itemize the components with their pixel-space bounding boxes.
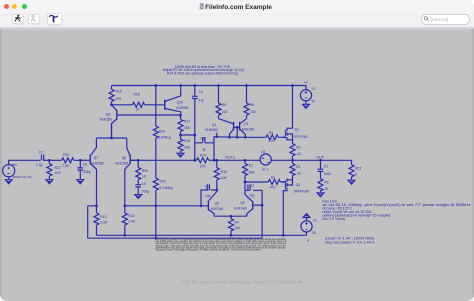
wire +V top bus <box>112 85 307 87</box>
svg-text:Q4: Q4 <box>212 123 217 127</box>
svg-text:-V: -V <box>306 239 310 243</box>
node Q8 collector / R14 <box>123 204 126 207</box>
svg-text:3.9K: 3.9K <box>100 221 108 225</box>
svg-text:18p: 18p <box>205 194 211 198</box>
node C1 tap <box>319 159 322 162</box>
svg-text:100: 100 <box>234 226 240 230</box>
ground below R22 <box>46 180 53 184</box>
svg-text:FileInfo.com Example: FileInfo.com Example <box>205 4 272 11</box>
svg-text:100: 100 <box>222 110 228 114</box>
node Q7 collector / R13 <box>95 204 98 207</box>
svg-text:V1: V1 <box>312 87 316 91</box>
svg-text:3p: 3p <box>202 148 206 152</box>
node R10 tap <box>215 159 218 162</box>
svg-text:100µ: 100µ <box>142 190 150 194</box>
resistor R13 <box>94 206 108 236</box>
svg-text:1K: 1K <box>142 174 147 178</box>
resistor R18 <box>178 135 191 153</box>
capacitor C7 <box>36 151 49 167</box>
wire comp stub <box>214 133 217 143</box>
svg-text:3.67Meg: 3.67Meg <box>158 135 171 139</box>
node tail junction <box>110 137 113 140</box>
node R6 bus tap <box>245 84 248 87</box>
svg-text:R21: R21 <box>63 153 69 157</box>
svg-text:R6: R6 <box>250 103 254 107</box>
transistor Q9 <box>100 105 181 138</box>
svg-text:R18: R18 <box>184 139 190 143</box>
node junction R15/Q9/R16 <box>110 103 113 106</box>
svg-text:.33: .33 <box>296 152 301 156</box>
wire OUT line <box>271 159 351 161</box>
svg-text:C1: C1 <box>324 164 328 168</box>
svg-text:.four 1K V(out): .four 1K V(out) <box>322 217 346 221</box>
svg-text:R8: R8 <box>222 103 226 107</box>
ground below C6 <box>77 180 84 184</box>
node R7/R5/C2 junction <box>244 181 247 184</box>
svg-text:890: 890 <box>249 171 255 175</box>
svg-text:MJE350: MJE350 <box>100 117 112 121</box>
resistor R6 <box>244 86 256 119</box>
node R7 tap <box>244 159 247 162</box>
svg-text:Q8: Q8 <box>122 156 127 160</box>
svg-text:Vin: Vin <box>12 163 17 167</box>
svg-text:C7: C7 <box>39 151 43 155</box>
ground below C5 <box>135 195 142 199</box>
transistor Q4 <box>205 119 237 138</box>
svg-text:100: 100 <box>250 110 256 114</box>
voltage source V2 <box>301 218 317 243</box>
ground above V2 <box>303 214 310 218</box>
node R10/C3/Q6 junction <box>215 189 218 192</box>
resistor R8 <box>216 86 228 119</box>
svg-text:Copyright Linear Technology Co: Copyright Linear Technology Corporation.… <box>156 248 262 251</box>
node emitter tie / R9 <box>230 215 233 218</box>
svg-text:V3: V3 <box>261 150 265 154</box>
node Q9 base / Q10 collector / R17 <box>179 114 182 117</box>
svg-text:47p: 47p <box>199 98 205 102</box>
svg-text:Q3: Q3 <box>244 122 249 126</box>
svg-text:C2: C2 <box>250 183 254 187</box>
run icon (running man) <box>15 15 20 22</box>
svg-text:R15: R15 <box>116 89 122 93</box>
svg-text:C5: C5 <box>142 182 146 186</box>
svg-text:C8: C8 <box>200 136 204 140</box>
node base drop <box>236 136 239 139</box>
svg-text:100n: 100n <box>324 172 332 176</box>
svg-text:R22: R22 <box>55 166 61 170</box>
node Q5 base junction <box>261 204 264 207</box>
node R24 bus tap <box>154 84 157 87</box>
svg-text:R13: R13 <box>100 215 106 219</box>
wire Q5/Q6 emitter tie <box>214 215 247 217</box>
transistor Q5 <box>234 195 262 217</box>
svg-text:ac 1: ac 1 <box>262 168 268 172</box>
node R19 right <box>213 159 216 162</box>
node Q3 collector / R4 <box>244 136 247 139</box>
capacitor C4 <box>192 86 204 136</box>
resistor R9 <box>229 216 240 235</box>
svg-text:R4: R4 <box>269 131 273 135</box>
resistor R3 <box>318 179 329 193</box>
ground below V1 <box>303 104 310 108</box>
capacitor C1 <box>318 160 332 178</box>
disclaimer fine print <box>156 238 287 251</box>
svg-text:V2: V2 <box>313 218 317 222</box>
svg-text:470: 470 <box>270 186 276 190</box>
search magnifier <box>424 17 428 21</box>
svg-text:3.9K: 3.9K <box>128 220 136 224</box>
svg-text:SINE(0 {V} 1K): SINE(0 {V} 1K) <box>13 175 32 179</box>
resistor R24 <box>153 86 171 179</box>
svg-text:R16: R16 <box>134 93 140 97</box>
node R20 tap <box>137 159 140 162</box>
node R14 on -V rail <box>123 234 126 237</box>
transistor Q6 <box>208 190 223 216</box>
traffic light close <box>4 4 9 9</box>
wire mirror collector rail <box>217 136 246 139</box>
resistor R20 <box>136 160 148 184</box>
node output device junction <box>291 159 294 162</box>
node Q2 drain on -V rail <box>282 234 285 237</box>
node R19 left <box>193 159 196 162</box>
wire OUT1 line <box>131 159 260 161</box>
toolbar button component <box>47 13 62 24</box>
wire VAS node to C4 column <box>181 134 195 136</box>
svg-text:R9: R9 <box>234 220 238 224</box>
node C4 bus tap <box>193 84 196 87</box>
svg-text:10K: 10K <box>221 176 228 180</box>
svg-text:50: 50 <box>312 231 316 235</box>
svg-text:18p: 18p <box>249 194 255 198</box>
title bar app icon <box>200 3 204 9</box>
svg-text:IRFP240: IRFP240 <box>294 135 307 139</box>
toolbar button run <box>12 14 24 25</box>
svg-text:10: 10 <box>324 187 328 191</box>
svg-text:IRFP9240: IRFP9240 <box>294 189 309 193</box>
svg-text:R1: R1 <box>296 165 300 169</box>
resistor R14 <box>122 206 136 236</box>
svg-text:C4: C4 <box>199 90 203 94</box>
svg-text:R17: R17 <box>184 120 190 124</box>
svg-text:(normal): (normal) <box>431 17 449 23</box>
svg-text:50: 50 <box>312 100 316 104</box>
svg-text:6.14Meg: 6.14Meg <box>160 186 173 190</box>
svg-text:C3: C3 <box>205 184 209 188</box>
transistor Q7 <box>80 138 103 206</box>
transistor Q3 <box>237 119 254 138</box>
svg-text:R25: R25 <box>160 180 166 184</box>
node R21/C6/Q7 base <box>79 159 82 162</box>
toolbar button halt (disabled) <box>28 14 40 25</box>
node R25 on feedback line <box>154 237 157 240</box>
svg-text:470: 470 <box>269 139 275 143</box>
svg-text:Q2: Q2 <box>296 183 301 187</box>
resistor R4 <box>245 131 284 143</box>
svg-text:MJE350: MJE350 <box>205 128 217 132</box>
svg-text:MJE350: MJE350 <box>176 106 188 110</box>
annotation header <box>162 65 244 76</box>
svg-text:R3: R3 <box>324 180 328 184</box>
wire -V rail <box>97 234 307 236</box>
svg-text:MJE340: MJE340 <box>211 207 223 211</box>
svg-text:330p: 330p <box>83 170 91 174</box>
search field <box>421 14 470 25</box>
component icon (navy) <box>50 15 58 21</box>
resistor R19 <box>195 153 214 168</box>
transistor Q10 <box>165 86 189 116</box>
svg-text:R24 & R25 are optional output: R24 & R25 are optional output offset tri… <box>167 72 238 76</box>
node Q4 collector <box>228 136 231 139</box>
svg-text:Q9: Q9 <box>106 112 111 116</box>
svg-text:C6: C6 <box>83 163 87 167</box>
node C4/VAS/comp junction <box>193 134 196 137</box>
resistor R15 <box>109 86 122 105</box>
svg-text:27K: 27K <box>200 165 207 169</box>
transistor Q1 (MOSFET) <box>282 86 307 144</box>
capacitor C8 <box>195 135 214 160</box>
node R8 bus tap <box>217 84 220 87</box>
resistor R21 <box>49 153 80 168</box>
resistor R7 <box>243 160 255 182</box>
svg-text:R19: R19 <box>200 153 206 157</box>
svg-text:R2: R2 <box>296 145 300 149</box>
transistor Q8 <box>116 138 139 206</box>
capacitor C3 <box>201 184 217 206</box>
svg-text:OUT1: OUT1 <box>225 156 235 160</box>
svg-text:MJE350: MJE350 <box>242 128 254 132</box>
capacitor C6 <box>77 160 90 179</box>
voltage source V1 <box>300 86 315 105</box>
resistor R23 <box>349 160 361 180</box>
ground below Vin <box>5 180 12 184</box>
svg-text:R10: R10 <box>221 170 227 174</box>
svg-text:470: 470 <box>116 97 122 101</box>
spice directives block 2 <box>324 236 375 245</box>
svg-text:2.2µ: 2.2µ <box>36 163 43 167</box>
traffic light minimize <box>12 4 17 9</box>
resistor R22 <box>47 160 62 179</box>
traffic light zoom <box>22 4 27 9</box>
svg-text:2.2K: 2.2K <box>62 164 70 168</box>
svg-text:ASC file open in Linear Techno: ASC file open in Linear Technology LTspi… <box>182 279 303 284</box>
resistor R17 <box>178 115 191 135</box>
transistor Q2 (MOSFET) <box>282 178 309 235</box>
wire Q5 base to feedback line <box>261 190 263 238</box>
svg-text:10K: 10K <box>184 145 191 149</box>
svg-text:MJE350: MJE350 <box>91 162 103 166</box>
node Q1 drain bus tap <box>291 84 294 87</box>
voltage source Vin <box>3 160 41 179</box>
svg-text:MJE350: MJE350 <box>116 162 128 166</box>
resistor R1 <box>290 160 301 180</box>
wire base net <box>88 206 209 238</box>
svg-text:Q7: Q7 <box>94 156 99 160</box>
capacitor C2 <box>245 182 262 198</box>
svg-text:R14: R14 <box>128 214 134 218</box>
svg-text:Q10: Q10 <box>177 100 183 104</box>
node R17/R18 junction <box>179 134 182 137</box>
wire feedback lower line <box>88 237 263 239</box>
svg-text:R5: R5 <box>271 176 275 180</box>
svg-text:R23: R23 <box>355 166 361 170</box>
halt icon (pale, disabled) <box>31 15 34 21</box>
resistor R16 <box>112 93 165 112</box>
resistor R5 <box>245 176 285 189</box>
svg-text:Q1: Q1 <box>295 128 300 132</box>
resistor R10 <box>214 160 227 190</box>
svg-text:MJE340: MJE340 <box>234 207 246 211</box>
svg-text:1K: 1K <box>136 108 141 112</box>
node C7/R22/R21 <box>48 159 51 162</box>
node Q3/Q4 base tie <box>236 126 239 129</box>
svg-text:Q6: Q6 <box>215 201 220 205</box>
ground below R3 <box>317 193 324 197</box>
svg-text:Q5: Q5 <box>240 201 245 205</box>
svg-text:.33: .33 <box>296 172 301 176</box>
svg-text:.step oct param V 1m 1.44 2: .step oct param V 1m 1.44 2 <box>324 240 375 245</box>
svg-text:10K: 10K <box>184 126 191 130</box>
svg-text:R7: R7 <box>249 164 253 168</box>
node R25 base-net crossing <box>154 204 157 207</box>
svg-text:8: 8 <box>355 172 357 176</box>
svg-text:+V: +V <box>303 81 308 85</box>
resistor R25 <box>153 178 172 238</box>
node R9 on -V rail <box>230 234 233 237</box>
ground below R18 <box>177 153 184 157</box>
svg-text:R20: R20 <box>142 169 148 173</box>
svg-text:R24: R24 <box>159 130 165 134</box>
node Q10 emitter on bus <box>179 84 182 87</box>
ground below R23 <box>348 180 355 184</box>
node C3 base-net tap <box>200 204 203 207</box>
spice directives block 1 <box>322 200 471 222</box>
voltage source V3 <box>260 150 271 171</box>
node comp takeoff <box>215 135 218 138</box>
svg-text:47K: 47K <box>55 171 62 175</box>
resistor R2 <box>290 144 301 161</box>
wire tail bar <box>96 124 126 139</box>
capacitor C5 <box>135 182 149 195</box>
